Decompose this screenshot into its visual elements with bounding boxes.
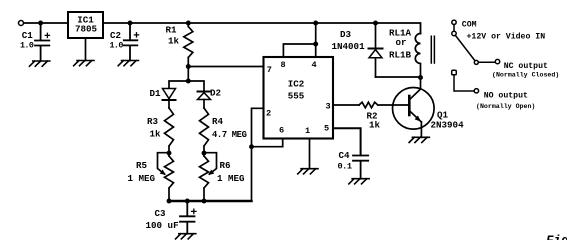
resistor R1 — [184, 23, 193, 67]
node R5 top — [167, 151, 172, 156]
svg-text:1 MEG: 1 MEG — [128, 173, 156, 184]
svg-text:7: 7 — [267, 65, 272, 75]
svg-text:0.1: 0.1 — [338, 162, 352, 172]
op-amp timer IC2 555 — [264, 57, 334, 139]
svg-text:(Normally Closed): (Normally Closed) — [492, 71, 559, 78]
svg-text:C4: C4 — [339, 150, 351, 161]
resistor R2 — [359, 102, 393, 108]
svg-text:D3: D3 — [340, 29, 352, 40]
ground — [118, 61, 138, 66]
relay coil RL1 — [415, 34, 434, 78]
svg-text:1k: 1k — [150, 129, 162, 140]
diode D3 — [369, 23, 383, 77]
wire pin1 ground lead — [309, 139, 311, 169]
svg-text:R5: R5 — [136, 160, 148, 171]
svg-text:8: 8 — [281, 60, 286, 70]
svg-text:D2: D2 — [210, 88, 221, 99]
wire D3 to coil bottom — [376, 76, 421, 78]
node diode branch — [186, 79, 191, 84]
node pin4 rail — [313, 21, 318, 26]
terminal +12V armature — [452, 31, 456, 35]
svg-text:100 uF: 100 uF — [146, 220, 179, 231]
diode D2 — [198, 92, 211, 109]
svg-text:RL1B: RL1B — [389, 49, 412, 60]
node coil bottom — [418, 75, 423, 80]
wire down to diode branch — [187, 67, 189, 82]
wire NO contact lead — [454, 75, 474, 91]
ground — [30, 61, 50, 66]
input terminal — [19, 21, 24, 26]
potentiometer R6 — [200, 153, 217, 201]
svg-text:2: 2 — [266, 109, 271, 119]
svg-text:IC2: IC2 — [288, 79, 305, 90]
wire pin3 to R2 — [333, 104, 359, 106]
ground — [298, 169, 318, 174]
svg-text:or: or — [396, 37, 407, 48]
resistor R3 — [165, 108, 174, 153]
svg-text:R3: R3 — [147, 116, 159, 127]
svg-text:7805: 7805 — [75, 24, 98, 35]
wire switch arm — [455, 35, 475, 61]
node pin2/6 tie — [249, 144, 254, 149]
transistor Q1 — [393, 88, 435, 138]
diode D1 — [163, 89, 176, 109]
capacitor C2 — [124, 23, 139, 61]
voltage regulator IC1 — [68, 12, 103, 38]
terminal COM — [452, 20, 456, 24]
wire collector — [420, 78, 422, 89]
wire to pin 7 — [188, 66, 263, 68]
wire bottom timing rail — [169, 200, 252, 202]
wire pin5 to C4 — [333, 128, 361, 155]
node arm pivot — [474, 60, 478, 64]
svg-text:4: 4 — [312, 60, 317, 70]
wire pin8 to pin4 strap — [283, 23, 315, 57]
svg-text:555: 555 — [288, 91, 305, 102]
terminal NC output — [495, 59, 499, 63]
svg-text:6: 6 — [279, 126, 284, 136]
ground — [176, 234, 196, 239]
svg-text:R6: R6 — [220, 160, 231, 171]
svg-text:C3: C3 — [155, 208, 167, 219]
node D3 top — [373, 21, 378, 26]
wire pivot to NC — [478, 61, 495, 63]
capacitor C1 — [35, 23, 50, 61]
svg-text:+12V or Video IN: +12V or Video IN — [467, 32, 546, 42]
svg-text:R1: R1 — [166, 25, 178, 36]
wire IC1 ground lead — [85, 38, 87, 61]
node pin4 strap — [313, 42, 318, 47]
svg-text:1k: 1k — [168, 36, 180, 47]
svg-text:Fig: Fig — [546, 234, 567, 240]
svg-text:1: 1 — [305, 126, 310, 136]
ground — [349, 179, 369, 184]
svg-text:1.0: 1.0 — [20, 40, 34, 50]
svg-text:1.0: 1.0 — [110, 40, 124, 50]
node C3 junction — [185, 199, 190, 204]
resistor R4 — [200, 108, 209, 153]
wire input to IC1 — [24, 22, 68, 24]
svg-text:NC output: NC output — [504, 62, 548, 71]
svg-text:1 MEG: 1 MEG — [217, 173, 245, 184]
terminal NO output — [474, 89, 478, 93]
svg-text:2N3904: 2N3904 — [431, 120, 465, 131]
node R1 top — [186, 21, 191, 26]
wire branch to D1 and D2 — [169, 81, 204, 91]
wire COM to arm — [453, 25, 455, 32]
svg-text:1k: 1k — [369, 120, 381, 131]
svg-text:D1: D1 — [150, 88, 162, 99]
ground — [409, 137, 429, 142]
potentiometer R5 — [158, 153, 174, 201]
wire pin6 — [252, 139, 283, 147]
wire +5V rail — [103, 23, 421, 34]
terminal NO contact — [452, 70, 457, 75]
wire pin2 — [252, 108, 264, 201]
ground — [74, 61, 94, 66]
svg-text:5: 5 — [324, 124, 329, 134]
svg-text:COM: COM — [462, 20, 477, 29]
node R1 bottom / pin7 — [186, 64, 191, 69]
svg-text:1N4001: 1N4001 — [332, 41, 366, 52]
node R6 top — [202, 151, 207, 156]
svg-text:R4: R4 — [212, 116, 224, 127]
svg-text:4.7 MEG: 4.7 MEG — [212, 130, 247, 140]
capacitor C4 — [353, 156, 368, 179]
capacitor C3 — [180, 201, 196, 234]
svg-text:Q1: Q1 — [437, 109, 449, 120]
svg-text:NO output: NO output — [484, 91, 528, 100]
svg-text:3: 3 — [326, 102, 331, 112]
svg-text:(Normally Open): (Normally Open) — [476, 103, 535, 110]
node C1 junction — [38, 21, 43, 26]
node C2 junction — [128, 21, 133, 26]
